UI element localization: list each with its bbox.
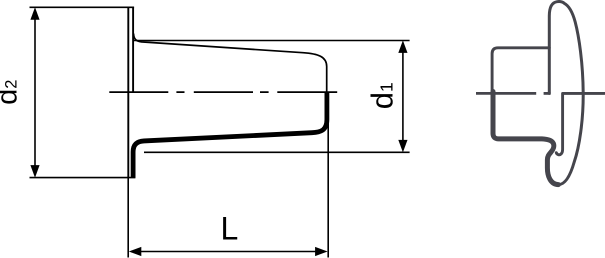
dimension line L bbox=[131, 251, 325, 253]
arrowhead d2 bottom bbox=[30, 165, 39, 178]
arrowhead L right bbox=[315, 247, 328, 256]
arrowhead d1 bottom bbox=[398, 140, 407, 153]
body top outline (thin) bbox=[492, 48, 549, 94]
body lower outline (thick) with rolled end bbox=[493, 92, 558, 185]
svg-text:d2: d2 bbox=[0, 80, 24, 105]
extension line L left bbox=[127, 178, 129, 258]
flange disc outline (thin) bbox=[549, 2, 583, 185]
extension line d2 bottom / flange bottom bbox=[30, 177, 136, 179]
extension line d1 top bbox=[134, 40, 410, 42]
flange left edge bbox=[127, 7, 129, 177]
grey centerline dash bbox=[544, 92, 551, 95]
arrowhead d1 top bbox=[398, 40, 407, 53]
extension line d2 top bbox=[30, 6, 135, 8]
bore top line (thin, tapering) bbox=[134, 34, 327, 98]
grey centerline left segment bbox=[476, 92, 536, 95]
centerline (dash-dot) bbox=[109, 91, 337, 93]
arrowhead L left bbox=[129, 247, 142, 256]
extension line d1 bottom bbox=[144, 151, 410, 153]
hook: centerline right + rolled lip bbox=[556, 93, 604, 154]
arrowhead d2 top bbox=[30, 7, 39, 20]
dimension line d2 bbox=[34, 10, 36, 175]
flange right edge bbox=[132, 7, 134, 92]
svg-text:L: L bbox=[221, 210, 239, 246]
extension line L right bbox=[327, 92, 329, 258]
thick lower wall line bbox=[133, 93, 327, 178]
dimension line d1 bbox=[402, 44, 404, 149]
